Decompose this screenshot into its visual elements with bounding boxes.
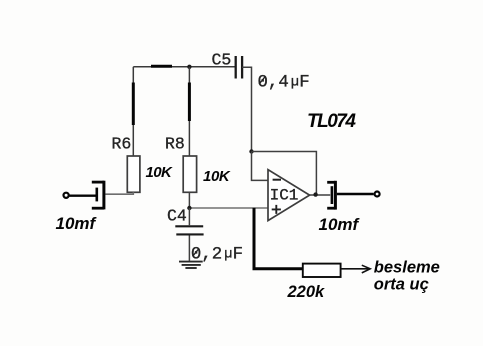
svg-text:orta uç: orta uç [374, 276, 429, 294]
ground [179, 262, 203, 268]
wire op-amp output [310, 194, 331, 196]
svg-text:R8: R8 [165, 135, 185, 154]
capacitor 10mf output [327, 181, 335, 210]
wire resistor to arrow [341, 268, 369, 270]
wire bias thick [254, 208, 303, 269]
svg-text:10mf: 10mf [56, 214, 98, 233]
input terminal [64, 193, 69, 198]
wire input [69, 194, 96, 196]
node C4 junction [187, 206, 191, 210]
wire to inverting input [252, 152, 268, 181]
svg-text:C5: C5 [212, 51, 232, 70]
node feedback junction [249, 149, 253, 153]
wire output [337, 193, 374, 195]
svg-text:10K: 10K [146, 164, 173, 181]
minus sign [273, 179, 281, 181]
resistor R8 [183, 156, 196, 192]
svg-text:C4: C4 [167, 207, 187, 226]
svg-text:R6: R6 [112, 135, 132, 154]
resistor R6 [127, 156, 140, 192]
wire C4 to ground [188, 236, 190, 261]
svg-text:220k: 220k [287, 283, 326, 301]
wire top rail thick segment [151, 65, 172, 68]
capacitor C5 [236, 56, 242, 79]
wire R6 bottom lead to input node [105, 192, 133, 194]
svg-text:TL074: TL074 [307, 111, 356, 132]
plus sign [272, 205, 281, 214]
svg-text:10K: 10K [203, 168, 231, 185]
wire R6 top lead [132, 67, 134, 156]
wire non-inverting row [189, 207, 267, 209]
wire C5 to feedback node [242, 67, 251, 151]
wire feedback top [252, 152, 317, 195]
wire junction to C4 [188, 208, 190, 225]
op-amp IC1 [268, 170, 310, 221]
svg-text:IC1: IC1 [270, 187, 299, 205]
wire R8 top lead [188, 67, 190, 156]
svg-text:0,2µF: 0,2µF [191, 246, 243, 265]
capacitor 10mf input [92, 181, 104, 210]
node top junction [187, 65, 191, 69]
wire top rail [133, 66, 236, 68]
arrowhead [362, 265, 370, 273]
svg-text:besleme: besleme [374, 259, 440, 277]
output terminal [375, 192, 380, 197]
capacitor C4 [175, 226, 203, 234]
svg-text:10mf: 10mf [319, 215, 361, 234]
value 0,2uF [191, 246, 243, 265]
resistor 220k [303, 264, 341, 277]
svg-text:0,4µF: 0,4µF [258, 74, 310, 93]
wire R8 bottom lead [188, 192, 190, 208]
node output junction [313, 192, 317, 196]
value 0,4uF [258, 74, 310, 93]
